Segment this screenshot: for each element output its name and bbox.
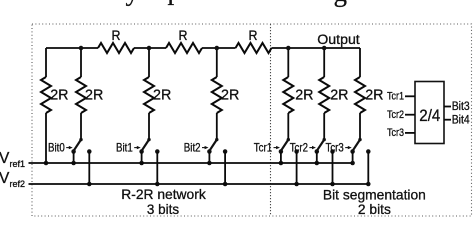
junction node on rail at R5 xyxy=(79,46,84,51)
junction node on Vref2 bus at S1 xyxy=(87,182,92,187)
junction node R4 on Vref1 bus xyxy=(44,161,49,166)
switch S5 throw contact to Vref2 xyxy=(330,149,335,154)
wire top rail segment 1 xyxy=(46,47,98,49)
switch S1 throw contact to Vref1 xyxy=(71,149,76,154)
wire U1 output pin Bit4 xyxy=(444,119,451,121)
arrow for Bit1 label xyxy=(134,146,141,149)
wire switch S4 contact to Vref2 bus xyxy=(296,152,298,185)
junction node on Vref2 bus at S3 xyxy=(223,182,228,187)
wire rail to resistor R9 xyxy=(323,48,325,77)
arrow for Tcr1 label xyxy=(274,146,281,149)
switch S6 pole dot xyxy=(358,138,361,141)
svg-text:Tcr1: Tcr1 xyxy=(387,91,404,103)
resistor R6 body (2R) xyxy=(144,77,154,113)
wire switch S3 contact to Vref1 bus xyxy=(208,152,210,164)
dotted border frame xyxy=(32,24,472,216)
switch S4 throw contact to Vref2 xyxy=(294,149,299,154)
junction node on rail at R8 xyxy=(286,46,291,51)
junction node on rail at R9 xyxy=(322,46,327,51)
wire switch S6 contact to Vref1 bus xyxy=(352,152,354,164)
switch S2 lever xyxy=(142,140,149,151)
label Vref2 xyxy=(0,170,25,189)
svg-text:p: p xyxy=(168,0,182,5)
arrow for Bit2 label xyxy=(202,146,209,149)
svg-text:2R: 2R xyxy=(295,86,313,103)
svg-text:R: R xyxy=(179,27,188,43)
switch S2 throw contact to Vref1 xyxy=(139,149,144,154)
switch S4 throw contact to Vref1 xyxy=(279,149,284,154)
resistor R1 body xyxy=(98,43,134,53)
wire resistor R9 to switch S5 pole xyxy=(323,113,325,140)
switch S1 pole dot xyxy=(79,138,82,141)
resistor R3 body xyxy=(236,43,272,53)
junction node on Vref1 bus at S5 xyxy=(315,161,320,166)
junction node on Vref1 bus at S3 xyxy=(207,161,212,166)
svg-text:R: R xyxy=(249,27,258,43)
svg-text:Tcr2: Tcr2 xyxy=(290,140,309,154)
wire switch S3 contact to Vref2 bus xyxy=(224,152,226,185)
wire Vref2 bus xyxy=(29,183,369,185)
wire switch S6 contact to Vref2 bus xyxy=(367,152,369,185)
switch S2 pole dot xyxy=(147,138,150,141)
switch S6 throw contact to Vref2 xyxy=(366,149,371,154)
junction node on Vref1 bus at S6 xyxy=(350,161,355,166)
wire resistor R7 to switch S3 pole xyxy=(216,113,218,140)
wire Vref1 bus xyxy=(29,162,353,164)
svg-text:Bit3: Bit3 xyxy=(452,101,470,113)
wire rail to resistor R8 xyxy=(287,48,289,77)
wire switch S2 contact to Vref2 bus xyxy=(156,152,158,185)
svg-text:g: g xyxy=(334,0,348,7)
wire U1 output pin Bit3 xyxy=(444,106,451,108)
wire switch S2 contact to Vref1 bus xyxy=(141,152,143,164)
svg-text:2R: 2R xyxy=(330,86,348,103)
svg-text:R-2R network: R-2R network xyxy=(121,186,206,202)
arrow for Tcr3 label xyxy=(345,146,352,149)
resistor R7 body (2R) xyxy=(212,77,222,113)
decoder U1 box (2/4) xyxy=(415,82,444,144)
wire switch S1 contact to Vref2 bus xyxy=(88,152,90,185)
switch S1 throw contact to Vref2 xyxy=(87,149,92,154)
arrow for Tcr2 label xyxy=(309,146,316,149)
junction node on rail at R7 xyxy=(215,46,220,51)
wire top rail segment 2 xyxy=(134,47,166,49)
svg-text:2/4: 2/4 xyxy=(419,107,440,125)
svg-text:y: y xyxy=(126,0,140,6)
resistor R5 body (2R) xyxy=(76,77,86,113)
wire resistor R8 to switch S4 pole xyxy=(287,113,289,140)
wire rail to resistor R6 xyxy=(148,48,150,77)
svg-text:Bit0: Bit0 xyxy=(48,140,65,154)
switch S2 throw contact to Vref2 xyxy=(155,149,160,154)
dotted section divider line xyxy=(270,24,272,216)
svg-text:2R: 2R xyxy=(50,86,68,103)
junction node on Vref2 bus at S2 xyxy=(155,182,160,187)
switch S5 lever xyxy=(317,140,324,151)
wire top rail segment 3 xyxy=(202,47,236,49)
svg-text:Output: Output xyxy=(317,32,360,47)
wire resistor R4 to Vref1 bus xyxy=(45,113,47,163)
switch S4 lever xyxy=(281,140,288,151)
junction node on Vref1 bus at S4 xyxy=(279,161,284,166)
svg-text:Bit1: Bit1 xyxy=(116,140,133,154)
wire switch S5 contact to Vref2 bus xyxy=(332,152,334,185)
wire rail to resistor R5 xyxy=(80,48,82,77)
junction node on rail at R6 xyxy=(147,46,152,51)
arrow for Bit0 label xyxy=(66,146,73,149)
switch S3 pole dot xyxy=(215,138,218,141)
wire switch S1 contact to Vref1 bus xyxy=(73,152,75,164)
junction node on Vref1 bus at S1 xyxy=(71,161,76,166)
switch S3 throw contact to Vref1 xyxy=(207,149,212,154)
wire resistor R10 to switch S6 pole xyxy=(359,113,361,140)
junction node on Vref1 bus at S2 xyxy=(139,161,144,166)
wire switch S5 contact to Vref1 bus xyxy=(316,152,318,164)
svg-text:Bit segmentation: Bit segmentation xyxy=(323,186,426,202)
switch S4 pole dot xyxy=(287,138,290,141)
svg-text:3 bits: 3 bits xyxy=(147,201,179,217)
junction node on Vref2 bus at S5 xyxy=(330,182,335,187)
svg-text:2R: 2R xyxy=(221,86,239,103)
svg-text:2R: 2R xyxy=(365,86,383,103)
wire rail to resistor R4 xyxy=(45,48,47,77)
svg-text:2R: 2R xyxy=(153,86,171,103)
svg-text:V: V xyxy=(0,150,10,167)
svg-text:V: V xyxy=(0,170,10,187)
svg-text:Bit4: Bit4 xyxy=(452,114,471,126)
switch S5 throw contact to Vref1 xyxy=(315,149,320,154)
switch S3 throw contact to Vref2 xyxy=(223,149,228,154)
switch S5 pole dot xyxy=(323,138,326,141)
resistor R2 body xyxy=(166,43,202,53)
svg-text:Bit2: Bit2 xyxy=(184,140,201,154)
junction node on Vref2 bus at S6 xyxy=(366,182,371,187)
switch S3 lever xyxy=(209,140,216,151)
switch S6 throw contact to Vref1 xyxy=(350,149,355,154)
switch S6 lever xyxy=(353,140,360,151)
wire rail to resistor R7 xyxy=(216,48,218,77)
resistor R8 body (2R) xyxy=(283,77,293,113)
svg-text:2 bits: 2 bits xyxy=(358,201,391,217)
wire resistor R5 to switch S1 pole xyxy=(80,113,82,140)
wire U1 input pin Tcr2 xyxy=(405,114,415,116)
label Vref1 xyxy=(0,150,25,169)
svg-text:Tcr3: Tcr3 xyxy=(326,140,345,154)
svg-text:2R: 2R xyxy=(85,86,103,103)
resistor R4 body (2R) xyxy=(41,77,51,113)
switch S1 lever xyxy=(74,140,81,151)
wire rail to resistor R10 xyxy=(359,48,361,77)
svg-text:ref1: ref1 xyxy=(10,159,26,169)
resistor R9 body (2R) xyxy=(319,77,329,113)
svg-text:Tcr3: Tcr3 xyxy=(387,127,404,139)
svg-text:R: R xyxy=(112,27,121,43)
wire resistor R6 to switch S2 pole xyxy=(148,113,150,140)
svg-text:Tcr2: Tcr2 xyxy=(387,109,404,121)
wire U1 input pin Tcr1 xyxy=(405,95,415,97)
wire top rail segment 4 (Output net) xyxy=(272,47,361,49)
resistor R10 body (2R) xyxy=(355,77,365,113)
junction node on Vref2 bus at S4 xyxy=(294,182,299,187)
wire U1 input pin Tcr3 xyxy=(405,132,415,134)
svg-text:ref2: ref2 xyxy=(10,179,26,189)
wire switch S4 contact to Vref1 bus xyxy=(280,152,282,164)
svg-text:Tcr1: Tcr1 xyxy=(254,140,273,154)
